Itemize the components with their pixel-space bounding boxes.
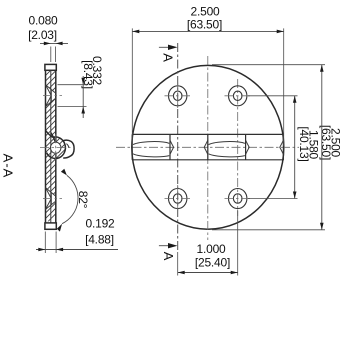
svg-text:[2.03]: [2.03]: [28, 28, 57, 42]
top hole centerline in section: [43, 95, 62, 97]
svg-text:2.500: 2.500: [190, 4, 220, 18]
hole column centerline right: [237, 79, 239, 216]
roll face outer: [46, 131, 53, 138]
dim 0.080 / 2.03 top-left: [28, 14, 68, 63]
knuckle band top edge: [132, 133, 284, 135]
section line A-A: [177, 43, 179, 250]
hole top-right inner: [233, 91, 242, 100]
countersink bottom hole (section): [46, 188, 56, 210]
svg-text:[63.50]: [63.50]: [187, 17, 222, 31]
top knuckle band rect: [45, 64, 56, 70]
circle outline (hinge disc): [132, 65, 284, 229]
dim 1.580 / 40.13 right: [248, 96, 321, 199]
svg-text:0.080: 0.080: [28, 14, 58, 28]
pin crosshair: [40, 134, 73, 160]
hole bottom-left outer: [169, 189, 187, 209]
dim 1.000 / 25.40 bottom: [178, 210, 238, 276]
curl inner lip: [66, 144, 69, 148]
svg-text:[40.13]: [40.13]: [297, 126, 311, 161]
hole bottom-left crosshair: [165, 185, 192, 212]
wedge point left of last segment: [246, 140, 250, 154]
svg-text:0.192: 0.192: [85, 216, 115, 230]
svg-text:1.000: 1.000: [196, 242, 226, 256]
hole bottom-right crosshair: [225, 198, 252, 200]
dim 2.500 / 63.50 top: [132, 4, 283, 146]
knuckle curl: [40, 131, 74, 161]
hole top-left crosshair: [165, 83, 192, 110]
leaf stack edges: [46, 70, 56, 223]
barrel 2 lower arc: [209, 154, 245, 157]
svg-text:[63.50]: [63.50]: [319, 125, 333, 160]
hole bottom-right outer: [229, 189, 247, 209]
section arrow A bottom: [159, 243, 178, 261]
svg-text:A: A: [161, 53, 176, 62]
countersink white-outs: [45, 84, 56, 107]
horizontal centerline: [116, 146, 299, 148]
dim 0.192 / 4.88 bottom-left: [36, 216, 118, 253]
dim 2.500 / 63.50 right: [212, 65, 343, 230]
barrel 1 upper arc: [133, 142, 169, 145]
vertical centerline: [207, 56, 209, 240]
hole top-left inner: [173, 91, 182, 100]
leaf separation line: [50, 70, 52, 223]
pin bore outline: [51, 142, 61, 153]
pin bore white: [51, 142, 61, 153]
wedge point right of last segment: [280, 140, 284, 154]
knuckle band bottom edge: [132, 159, 284, 161]
section arrow A top: [159, 45, 178, 63]
dim 0.332 / 8.43: [58, 56, 105, 118]
svg-text:A-A: A-A: [1, 154, 16, 179]
wedge point right of gap segment: [204, 140, 208, 154]
barrel 1 lower arc: [133, 154, 169, 157]
knuckle divider 4: [245, 134, 247, 159]
dim 82 degrees: [57, 169, 90, 232]
knuckle divider 5: [282, 134, 284, 159]
knuckle divider 3: [207, 134, 209, 159]
knuckle outer circle: [47, 137, 66, 159]
svg-text:[4.88]: [4.88]: [85, 232, 114, 246]
section hatching: [41, 36, 85, 229]
hole top-left outer: [169, 86, 187, 106]
knuckle divider 2: [169, 134, 171, 159]
svg-text:A: A: [161, 252, 176, 261]
barrel 2 upper arc: [209, 142, 245, 145]
curl beak outline: [63, 140, 74, 158]
bottom knuckle band rect: [45, 223, 56, 229]
countersink top hole (section): [46, 85, 56, 107]
hole top-right outer: [229, 86, 247, 106]
bottom hole centerline in section: [43, 198, 62, 200]
knuckle divider 1: [131, 134, 133, 159]
svg-text:[25.40]: [25.40]: [195, 255, 230, 269]
wedge point left of gap segment: [170, 140, 174, 154]
hole bottom-left inner: [173, 194, 182, 203]
roll face inner: [51, 133, 56, 142]
hole top-right crosshair: [225, 95, 252, 97]
hole bottom-right inner: [233, 194, 242, 203]
